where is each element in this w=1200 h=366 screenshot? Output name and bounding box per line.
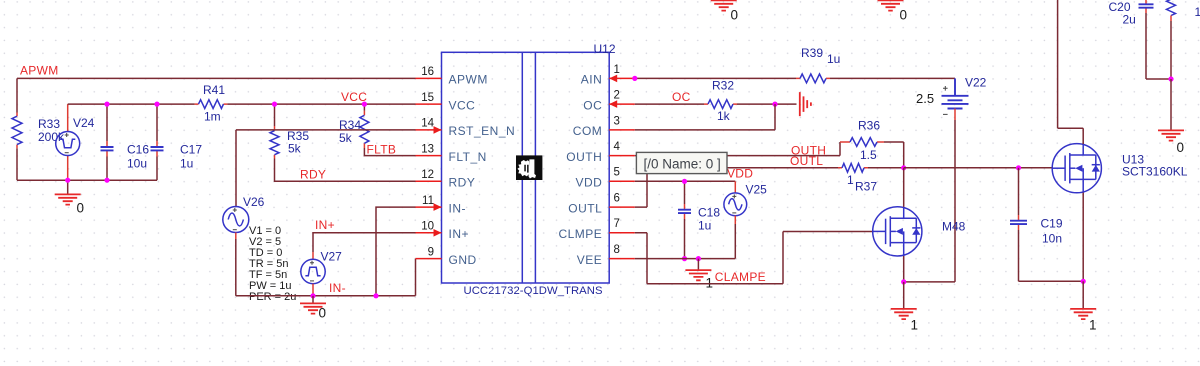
junction gate node — [901, 165, 906, 170]
ground 1 on VEE — [697, 259, 699, 270]
pin 11 IN- — [416, 206, 442, 208]
svg-text:R33: R33 — [38, 117, 60, 131]
battery V22 — [954, 78, 956, 95]
pin 7 CLMPE — [609, 232, 635, 234]
capacitor C20 — [1145, 0, 1147, 13]
svg-text:V24: V24 — [73, 116, 95, 130]
svg-text:0: 0 — [1177, 140, 1185, 155]
transistor M48 — [873, 207, 922, 256]
resistor R41 — [199, 100, 224, 109]
svg-text:V25: V25 — [746, 183, 768, 197]
ground 0 top left of pair — [711, 0, 737, 10]
pin 6 OUTL — [609, 206, 635, 208]
svg-text:R37: R37 — [855, 180, 877, 194]
wire IN- net — [376, 207, 416, 296]
svg-text:[/0 Name: 0 ]: [/0 Name: 0 ] — [644, 156, 721, 171]
wire VEE net — [635, 258, 736, 260]
wire RDY net — [275, 159, 416, 182]
svg-text:10: 10 — [421, 221, 434, 233]
junction C19 top — [1016, 165, 1021, 170]
resistor top right — [1167, 0, 1176, 16]
junction AIN stub — [632, 76, 637, 81]
junction C20/resistor — [1168, 76, 1173, 81]
svg-text:7: 7 — [614, 218, 620, 230]
svg-text:15: 15 — [421, 92, 434, 104]
pin 14 RST_EN_N — [416, 129, 442, 131]
svg-text:RDY: RDY — [449, 176, 476, 190]
wire U13 drain to top — [1058, 0, 1084, 144]
wire V26 bottom to rail — [235, 233, 237, 240]
pin 10 IN+ — [416, 232, 442, 234]
svg-text:APWM: APWM — [449, 73, 488, 87]
svg-text:GND: GND — [449, 253, 477, 267]
svg-text:UCC21732-Q1DW_TRANS: UCC21732-Q1DW_TRANS — [464, 285, 603, 297]
op-amp U12 body UCC21732 — [442, 52, 610, 283]
svg-text:CLMPE: CLMPE — [558, 227, 602, 241]
capacitor C16 — [106, 104, 108, 141]
wire V27 bottom — [312, 284, 314, 296]
svg-text:1k: 1k — [717, 109, 731, 123]
pin 4 OUTH — [609, 155, 635, 157]
svg-text:6: 6 — [614, 193, 620, 205]
svg-text:VEE: VEE — [577, 253, 603, 267]
ground 0 top right of pair — [878, 0, 904, 10]
wire C19 bottom rail — [1019, 280, 1084, 282]
svg-text:1u: 1u — [698, 219, 711, 233]
voltage source V27 — [312, 252, 314, 259]
wire VDD net — [635, 180, 736, 182]
svg-text:C17: C17 — [180, 143, 202, 157]
wire COM net — [635, 104, 775, 130]
wire AIN net — [635, 77, 796, 79]
svg-text:IN-: IN- — [329, 281, 346, 295]
ground 1 under M48 — [903, 282, 905, 309]
pin 5 VDD — [609, 180, 635, 182]
svg-text:13: 13 — [421, 143, 434, 155]
svg-text:0: 0 — [731, 8, 739, 23]
svg-text:4: 4 — [614, 141, 621, 153]
pin 12 RDY — [416, 180, 442, 182]
svg-text:CLAMPE: CLAMPE — [715, 270, 766, 284]
TI logo — [516, 155, 542, 180]
svg-text:12: 12 — [421, 169, 434, 181]
wire M48 drain — [903, 168, 905, 207]
svg-text:1u: 1u — [827, 52, 840, 66]
wire M48 source to rail — [904, 256, 955, 282]
svg-text:APWM: APWM — [20, 64, 59, 78]
svg-text:1u: 1u — [180, 157, 193, 171]
svg-text:IN+: IN+ — [315, 218, 335, 232]
svg-text:2: 2 — [614, 90, 620, 102]
junction U13 source — [1081, 279, 1086, 284]
svg-text:0: 0 — [77, 201, 85, 216]
resistor R32 — [708, 100, 733, 109]
pin 2 OC — [609, 103, 635, 105]
svg-text:C19: C19 — [1041, 217, 1063, 231]
wire OC net — [635, 103, 704, 105]
svg-text:RDY: RDY — [300, 168, 326, 182]
junction C17 top — [154, 102, 159, 107]
capacitor C18 — [684, 181, 686, 204]
wire APWM horizontal — [17, 77, 416, 79]
voltage source V25 — [724, 193, 747, 216]
svg-text:OUTH: OUTH — [566, 150, 602, 164]
svg-text:10n: 10n — [1042, 232, 1062, 246]
svg-text:10u: 10u — [127, 157, 147, 171]
svg-text:0: 0 — [900, 8, 908, 23]
svg-text:9: 9 — [428, 246, 434, 258]
junction R35 top — [272, 102, 277, 107]
voltage source V24 — [67, 104, 69, 180]
ground 0 top right — [1158, 130, 1184, 140]
svg-text:1: 1 — [706, 276, 714, 291]
pin 16 APWM — [416, 77, 442, 79]
svg-text:VDD: VDD — [575, 176, 602, 190]
junction IN- rail — [373, 293, 378, 298]
svg-text:16: 16 — [421, 66, 434, 78]
svg-text:OC: OC — [583, 98, 602, 112]
svg-text:5: 5 — [614, 167, 620, 179]
svg-text:V22: V22 — [965, 76, 987, 90]
svg-text:1m: 1m — [204, 110, 221, 124]
svg-text:1.5: 1.5 — [860, 148, 877, 162]
junction C18 top — [682, 179, 687, 184]
wire CLMPE net to M48 gate — [635, 232, 873, 284]
svg-text:M48: M48 — [942, 220, 966, 234]
svg-text:1: 1 — [1195, 5, 1200, 19]
junction C16 top — [104, 102, 109, 107]
wire VCC rail — [68, 103, 195, 105]
svg-text:U12: U12 — [594, 42, 616, 56]
capacitor C19 — [1018, 168, 1020, 215]
junction C18 bottom — [682, 256, 687, 261]
junction VEE ground stem — [696, 256, 701, 261]
svg-text:1: 1 — [1089, 318, 1097, 333]
svg-text:C18: C18 — [698, 206, 720, 220]
svg-text:C16: C16 — [127, 143, 149, 157]
resistor R36 — [850, 138, 877, 147]
svg-text:0: 0 — [319, 306, 327, 321]
svg-text:R39: R39 — [801, 46, 823, 60]
ground 0 under V24 — [67, 180, 69, 194]
svg-text:R41: R41 — [203, 83, 225, 97]
pin 8 VEE — [609, 258, 635, 260]
junction V27 bottom — [310, 293, 315, 298]
junction OC node — [772, 102, 777, 107]
wire gate line to U13 — [904, 167, 1053, 169]
resistor R37 — [842, 163, 864, 172]
voltage source V26 — [223, 207, 249, 233]
svg-text:R32: R32 — [712, 79, 734, 93]
svg-text:5k: 5k — [339, 131, 353, 145]
svg-text:2u: 2u — [1123, 13, 1136, 27]
svg-text:IN+: IN+ — [449, 227, 470, 241]
svg-text:PER = 2u: PER = 2u — [249, 291, 296, 303]
wire bottom rail to GND pin — [236, 259, 416, 296]
ground right-pointing on OC net — [800, 92, 811, 116]
junction C16 bottom — [104, 178, 109, 183]
transistor U13 — [1052, 144, 1101, 193]
svg-text:OUTL: OUTL — [790, 154, 823, 168]
svg-text:V26: V26 — [243, 195, 265, 209]
wire V25 bottom — [734, 216, 736, 224]
svg-text:1: 1 — [847, 173, 854, 187]
svg-text:1: 1 — [614, 64, 620, 76]
svg-text:FLTB: FLTB — [367, 143, 397, 157]
svg-text:8: 8 — [614, 244, 620, 256]
svg-text:COM: COM — [573, 124, 603, 138]
resistor R39 — [800, 74, 826, 83]
svg-text:FLT_N: FLT_N — [449, 150, 487, 164]
wire bottom rail left block — [17, 179, 157, 181]
ground 1 under U13 — [1082, 281, 1084, 308]
svg-text:OUTL: OUTL — [568, 201, 602, 215]
pin 13 FLT_N — [416, 155, 442, 157]
resistor R35 — [274, 104, 276, 126]
svg-text:R36: R36 — [858, 119, 880, 133]
svg-text:SCT3160KL: SCT3160KL — [1122, 165, 1188, 179]
wire down to ground 0 top right — [1170, 79, 1172, 130]
capacitor C17 — [156, 104, 158, 141]
resistor R34 — [363, 104, 365, 111]
svg-text:V27: V27 — [321, 250, 343, 264]
pin 1 AIN — [609, 77, 635, 79]
svg-text:14: 14 — [421, 118, 434, 130]
wire FLT_N net — [364, 148, 415, 156]
wire OUTH net — [635, 142, 840, 156]
resistor R33 — [12, 116, 22, 144]
pin 9 GND — [416, 258, 442, 260]
svg-text:OC: OC — [672, 90, 691, 104]
wire RST_EN_N net to V26 — [236, 130, 416, 207]
tooltip box [/0 Name: 0 ] — [636, 152, 727, 173]
svg-text:IN-: IN- — [449, 201, 467, 215]
wire U13 source — [1082, 193, 1084, 282]
junction V24 bottom — [65, 178, 70, 183]
svg-text:VCC: VCC — [449, 98, 476, 112]
svg-text:RST_EN_N: RST_EN_N — [449, 124, 516, 138]
wire left vertical with R33 — [16, 78, 18, 112]
svg-text:VDD: VDD — [727, 166, 753, 180]
svg-text:2.5: 2.5 — [916, 91, 934, 106]
svg-text:11: 11 — [422, 195, 434, 207]
wire OUTL net — [635, 168, 838, 207]
ground 0 under V27 — [312, 296, 314, 303]
pin 15 VCC — [416, 103, 442, 105]
pin 3 COM — [609, 129, 635, 131]
svg-text:200k: 200k — [38, 130, 65, 144]
svg-text:AIN: AIN — [581, 73, 603, 87]
svg-text:1: 1 — [911, 318, 919, 333]
junction M48 source — [901, 279, 906, 284]
svg-text:5k: 5k — [288, 142, 302, 156]
junction R34 top — [362, 102, 367, 107]
svg-text:3: 3 — [614, 115, 620, 127]
